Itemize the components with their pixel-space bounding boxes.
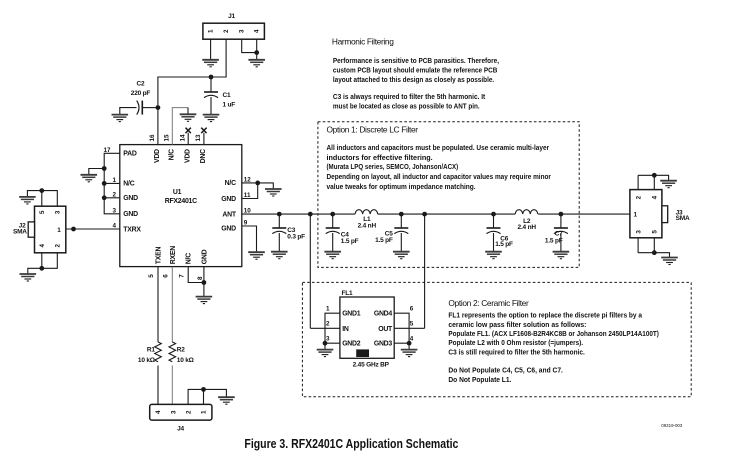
node J3 top junction [652, 173, 657, 178]
wire J4 pin2 up and over to pin1 [188, 389, 203, 404]
wire ANT to FL1 IN drop [309, 214, 311, 328]
ground (C2) [112, 115, 129, 122]
svg-text:Performance is sensitive to PC: Performance is sensitive to PCB parasiti… [333, 58, 499, 65]
svg-text:3: 3 [55, 210, 62, 214]
note Harmonic Filtering paragraph 1 [333, 58, 499, 84]
ground (J2 top) [19, 197, 36, 204]
node J4 pin1-2 junction [201, 387, 206, 392]
svg-text:15: 15 [164, 134, 171, 142]
svg-text:0.3 pF: 0.3 pF [287, 233, 305, 240]
svg-text:13: 13 [195, 134, 202, 142]
svg-text:1: 1 [634, 212, 638, 219]
no-connect X (pin14) [186, 128, 191, 133]
svg-text:inductors for effective filter: inductors for effective filtering. [327, 155, 433, 162]
svg-text:value tweaks for optimum imped: value tweaks for optimum impedance match… [327, 184, 476, 191]
wire U1 pin11 up to pin12 net [242, 183, 258, 199]
ground (C6) [485, 252, 502, 259]
svg-text:6: 6 [410, 305, 414, 312]
svg-text:C3 is still required to filter: C3 is still required to filter the 5th h… [448, 349, 584, 356]
svg-text:RXEN: RXEN [170, 246, 177, 264]
wire ANT to FL1 OUT drop [424, 214, 426, 328]
capacitor C2 [120, 81, 158, 115]
note Option 1 paragraph [327, 145, 552, 191]
wire ANT net: L1 to L2 [378, 213, 516, 215]
capacitor C1 [204, 77, 235, 115]
node J2 top junction [39, 188, 44, 193]
svg-text:Option 2: Ceramic Filter: Option 2: Ceramic Filter [448, 298, 529, 308]
svg-text:VDD: VDD [184, 149, 191, 163]
svg-text:IN: IN [342, 326, 349, 333]
svg-text:4: 4 [652, 195, 659, 199]
wire U1 pin9 to ground [242, 226, 257, 252]
svg-text:3: 3 [635, 230, 642, 234]
svg-text:C3 is always required to filte: C3 is always required to filter the 5th … [333, 94, 486, 101]
svg-text:Option 1: Discrete LC Filter: Option 1: Discrete LC Filter [327, 125, 419, 135]
svg-text:DNC: DNC [200, 149, 207, 163]
svg-text:GND: GND [123, 195, 138, 202]
svg-text:2: 2 [55, 243, 62, 247]
svg-text:10 kΩ: 10 kΩ [177, 357, 194, 364]
ground (C5) [393, 252, 410, 259]
svg-text:Figure 3. RFX2401C Application: Figure 3. RFX2401C Application Schematic [244, 437, 458, 451]
svg-text:4: 4 [39, 243, 46, 247]
note Harmonic Filtering paragraph 2 [333, 94, 486, 111]
svg-text:Harmonic Filtering: Harmonic Filtering [332, 36, 394, 46]
svg-text:All inductors and capacitors m: All inductors and capacitors must be pop… [327, 145, 550, 152]
node pin7-8 junction [202, 280, 207, 285]
wire VDD net: J1 pin2 down, across, down to U1 pin16 [158, 39, 226, 144]
wire ANT net: U1 pin10 to L1 [242, 213, 355, 215]
node J2 bottom junction [39, 266, 44, 271]
svg-text:5: 5 [148, 274, 155, 278]
svg-text:ceramic low pass filter soluti: ceramic low pass filter solution as foll… [448, 322, 586, 329]
svg-text:R1: R1 [147, 347, 155, 354]
svg-text:SMA: SMA [13, 229, 27, 236]
svg-text:3: 3 [239, 29, 246, 33]
wire U1 pin7 to pin8 ground [188, 267, 204, 283]
node J1 pins3-4 junction [254, 50, 259, 55]
node pin11-12 junction [255, 181, 260, 186]
wire PAD net: U1 pin17 bus to pins 1,2,3 [104, 153, 120, 214]
node VDD/C1 junction [209, 75, 214, 80]
no-connect X (pin13) [201, 128, 206, 133]
wire U1 TXEN pin5 down to R1 [157, 267, 159, 342]
ground (C7) [553, 252, 570, 259]
note Option 2 paragraph [448, 313, 659, 384]
resistor R1 10 kohm [138, 342, 161, 364]
svg-text:ANT: ANT [222, 211, 236, 218]
svg-text:GND: GND [221, 226, 236, 233]
node C3 tap [277, 212, 282, 217]
svg-text:FL1 represents the option to r: FL1 represents the option to replace the… [448, 313, 642, 320]
wire PAD bus to ground [89, 169, 104, 175]
ground (C1) [203, 115, 220, 122]
svg-text:1.5 pF: 1.5 pF [375, 237, 393, 244]
capacitor C5 1.5 pF [375, 214, 408, 251]
svg-text:Populate FL1. (ACX LF1608-B2R: Populate FL1. (ACX LF1608-B2R4KC8B or Jo… [448, 331, 659, 338]
node C6 tap [491, 212, 496, 217]
svg-text:5: 5 [652, 230, 659, 234]
svg-text:2.45 GHz BP: 2.45 GHz BP [353, 362, 390, 369]
Option 1 dashed box [318, 122, 579, 268]
Option 2 dashed box [302, 282, 691, 396]
connector J3 SMA [630, 190, 690, 238]
ground (U1 pin15) [180, 114, 197, 121]
svg-text:GND3: GND3 [374, 341, 393, 348]
svg-text:N/C: N/C [169, 149, 176, 160]
wire U1 pin12 to ground [242, 183, 273, 189]
svg-text:Populate L2 with 0 Ohm resisto: Populate L2 with 0 Ohm resistor (=jumper… [448, 340, 583, 347]
wire J1 pin4 to ground [256, 39, 258, 59]
wire J2 bottom pins to ground [28, 253, 58, 274]
svg-text:Depending on layout, all induc: Depending on layout, all inductor and ca… [327, 174, 552, 181]
svg-text:J1: J1 [228, 13, 235, 20]
ground (J3 bottom) [661, 258, 678, 265]
svg-text:N/C: N/C [186, 253, 193, 264]
svg-text:5: 5 [410, 320, 414, 327]
node FL1 right ground junction [407, 341, 412, 346]
svg-text:8: 8 [197, 276, 204, 280]
svg-text:1: 1 [57, 227, 61, 234]
wire J3 bottom pins to ground [638, 238, 669, 257]
IC U1 RFX2401C body [120, 145, 242, 267]
svg-text:VDD: VDD [154, 149, 161, 163]
wire J2 pin1 to U1 TXRX [66, 228, 120, 230]
svg-text:custom PCB layout should emula: custom PCB layout should emulate the ref… [333, 68, 498, 75]
node PAD bus pin1 [102, 181, 107, 186]
wire U1 pin13 no-connect stub [203, 133, 205, 145]
svg-text:TXRX: TXRX [123, 226, 141, 233]
ground (J1 pin4) [248, 60, 265, 67]
ground (J4) [218, 397, 235, 404]
svg-text:4: 4 [155, 410, 162, 414]
node PAD bus ground tap [102, 166, 107, 171]
ground (J3 top) [660, 181, 677, 188]
node C5 tap [399, 212, 404, 217]
wire J2 top pins to ground [27, 191, 57, 207]
ground (PAD bus) [81, 175, 98, 182]
connector J1 [203, 13, 265, 39]
node J2 pin1 [71, 227, 76, 232]
svg-text:2: 2 [326, 320, 330, 327]
svg-text:3: 3 [326, 335, 330, 342]
capacitor C3 0.3 pF [272, 214, 305, 251]
capacitor C6 1.5 pF [487, 214, 514, 251]
wire U1 pin14 no-connect stub [187, 133, 189, 145]
svg-text:2.4 nH: 2.4 nH [358, 222, 377, 229]
node J3 bottom junction [652, 250, 657, 255]
svg-text:GND2: GND2 [342, 341, 361, 348]
node FL1 left ground junction [323, 341, 328, 346]
svg-text:7: 7 [178, 274, 185, 278]
svg-text:J4: J4 [177, 426, 184, 433]
svg-text:SMA: SMA [676, 215, 690, 222]
wire R2 to J4 pin3 [171, 366, 173, 405]
svg-text:R2: R2 [177, 347, 185, 354]
ground (FL1 left) [317, 350, 334, 357]
svg-text:2: 2 [635, 195, 642, 199]
wire J4 net to ground [204, 389, 227, 397]
filter FL1 body [340, 290, 394, 369]
svg-text:1 uF: 1 uF [223, 102, 236, 109]
svg-text:2: 2 [223, 29, 230, 33]
svg-text:2.4 nH: 2.4 nH [518, 224, 537, 231]
svg-text:layout attached to this design: layout attached to this design as closel… [333, 77, 494, 84]
svg-text:U1: U1 [173, 189, 182, 196]
wire J4 pin1 stub [203, 389, 205, 404]
capacitor C7 1.5 pF [545, 214, 568, 251]
connector J4 [150, 404, 212, 432]
svg-text:Do Not Populate L1.: Do Not Populate L1. [448, 377, 511, 384]
node FL1 IN tap [308, 212, 313, 217]
node FL1 OUT tap [422, 212, 427, 217]
svg-text:GND1: GND1 [342, 311, 361, 318]
node VDD/C2 junction [156, 105, 161, 110]
svg-text:GND: GND [123, 211, 138, 218]
wire U1 RXEN pin6 down to R2 [171, 267, 173, 342]
wire FL1 OUT stub [394, 327, 424, 329]
ground (U1 pin8) [196, 297, 213, 304]
svg-text:16: 16 [149, 134, 156, 142]
wire ANT net: L2 to J3 pin1 [538, 213, 630, 215]
ground (U1 pin9) [248, 252, 265, 259]
svg-text:09319-003: 09319-003 [661, 423, 682, 428]
svg-text:6: 6 [162, 274, 169, 278]
wire R1 to J4 pin4 [157, 366, 159, 405]
svg-text:2: 2 [185, 410, 192, 414]
svg-text:GND: GND [201, 249, 208, 264]
wire FL1 GND4/GND3 to ground [394, 313, 409, 349]
svg-text:GND: GND [221, 196, 236, 203]
svg-text:1.5 pF: 1.5 pF [495, 241, 513, 248]
ground (FL1 right) [401, 350, 418, 357]
svg-text:N/C: N/C [123, 181, 134, 188]
svg-text:C1: C1 [223, 92, 231, 99]
capacitor C4 1.5 pF [326, 214, 359, 251]
svg-text:GND4: GND4 [374, 311, 393, 318]
svg-text:1: 1 [208, 29, 215, 33]
connector J2 SMA [13, 206, 66, 253]
svg-text:1.5 pF: 1.5 pF [545, 238, 563, 245]
svg-text:5: 5 [39, 210, 46, 214]
svg-text:14: 14 [179, 134, 186, 142]
svg-text:must be located as close as po: must be located as close as possible to … [333, 104, 480, 111]
wire J1 pin1 to ground [210, 39, 212, 59]
inductor L1 2.4 nH [355, 210, 378, 230]
ground (U1 pin12) [265, 189, 282, 196]
resistor R2 10 kohm [169, 342, 194, 364]
svg-text:10 kΩ: 10 kΩ [138, 357, 155, 364]
node PAD bus pin2 [102, 195, 107, 200]
wire U1 pin8 down to ground [203, 267, 205, 297]
svg-text:1.5 pF: 1.5 pF [341, 238, 359, 245]
inductor L2 2.4 nH [515, 210, 538, 231]
svg-text:OUT: OUT [378, 326, 393, 333]
svg-text:C2: C2 [137, 81, 145, 88]
svg-text:1: 1 [326, 305, 330, 312]
ground (C4) [324, 252, 341, 259]
node C7 tap [559, 212, 564, 217]
svg-text:N/C: N/C [225, 180, 236, 187]
wire J1 pin3 to pin4 [242, 39, 257, 52]
svg-text:3: 3 [170, 410, 177, 414]
ground (J2 bottom) [20, 274, 37, 281]
svg-text:1: 1 [201, 410, 208, 414]
wire FL1 IN stub [310, 327, 340, 329]
svg-text:220 pF: 220 pF [131, 90, 151, 97]
svg-text:(Murata LPQ series, SEMCO, Joh: (Murata LPQ series, SEMCO, Johanson/ACX) [327, 164, 459, 171]
ground (C3) [271, 252, 288, 259]
svg-text:4: 4 [254, 29, 261, 33]
svg-text:FL1: FL1 [342, 290, 354, 297]
svg-text:Do Not Populate C4, C5, C6, an: Do Not Populate C4, C5, C6, and C7. [448, 368, 563, 375]
wire J3 top pins to ground [638, 175, 669, 189]
node C4 tap [330, 212, 335, 217]
svg-text:RFX2401C: RFX2401C [165, 198, 197, 205]
ground (J1 pin1) [202, 60, 219, 67]
svg-text:TXEN: TXEN [156, 247, 163, 265]
wire U1 pin15 to ground [172, 108, 188, 145]
svg-text:PAD: PAD [123, 151, 137, 158]
wire FL1 GND1/GND2 to ground [325, 313, 340, 349]
